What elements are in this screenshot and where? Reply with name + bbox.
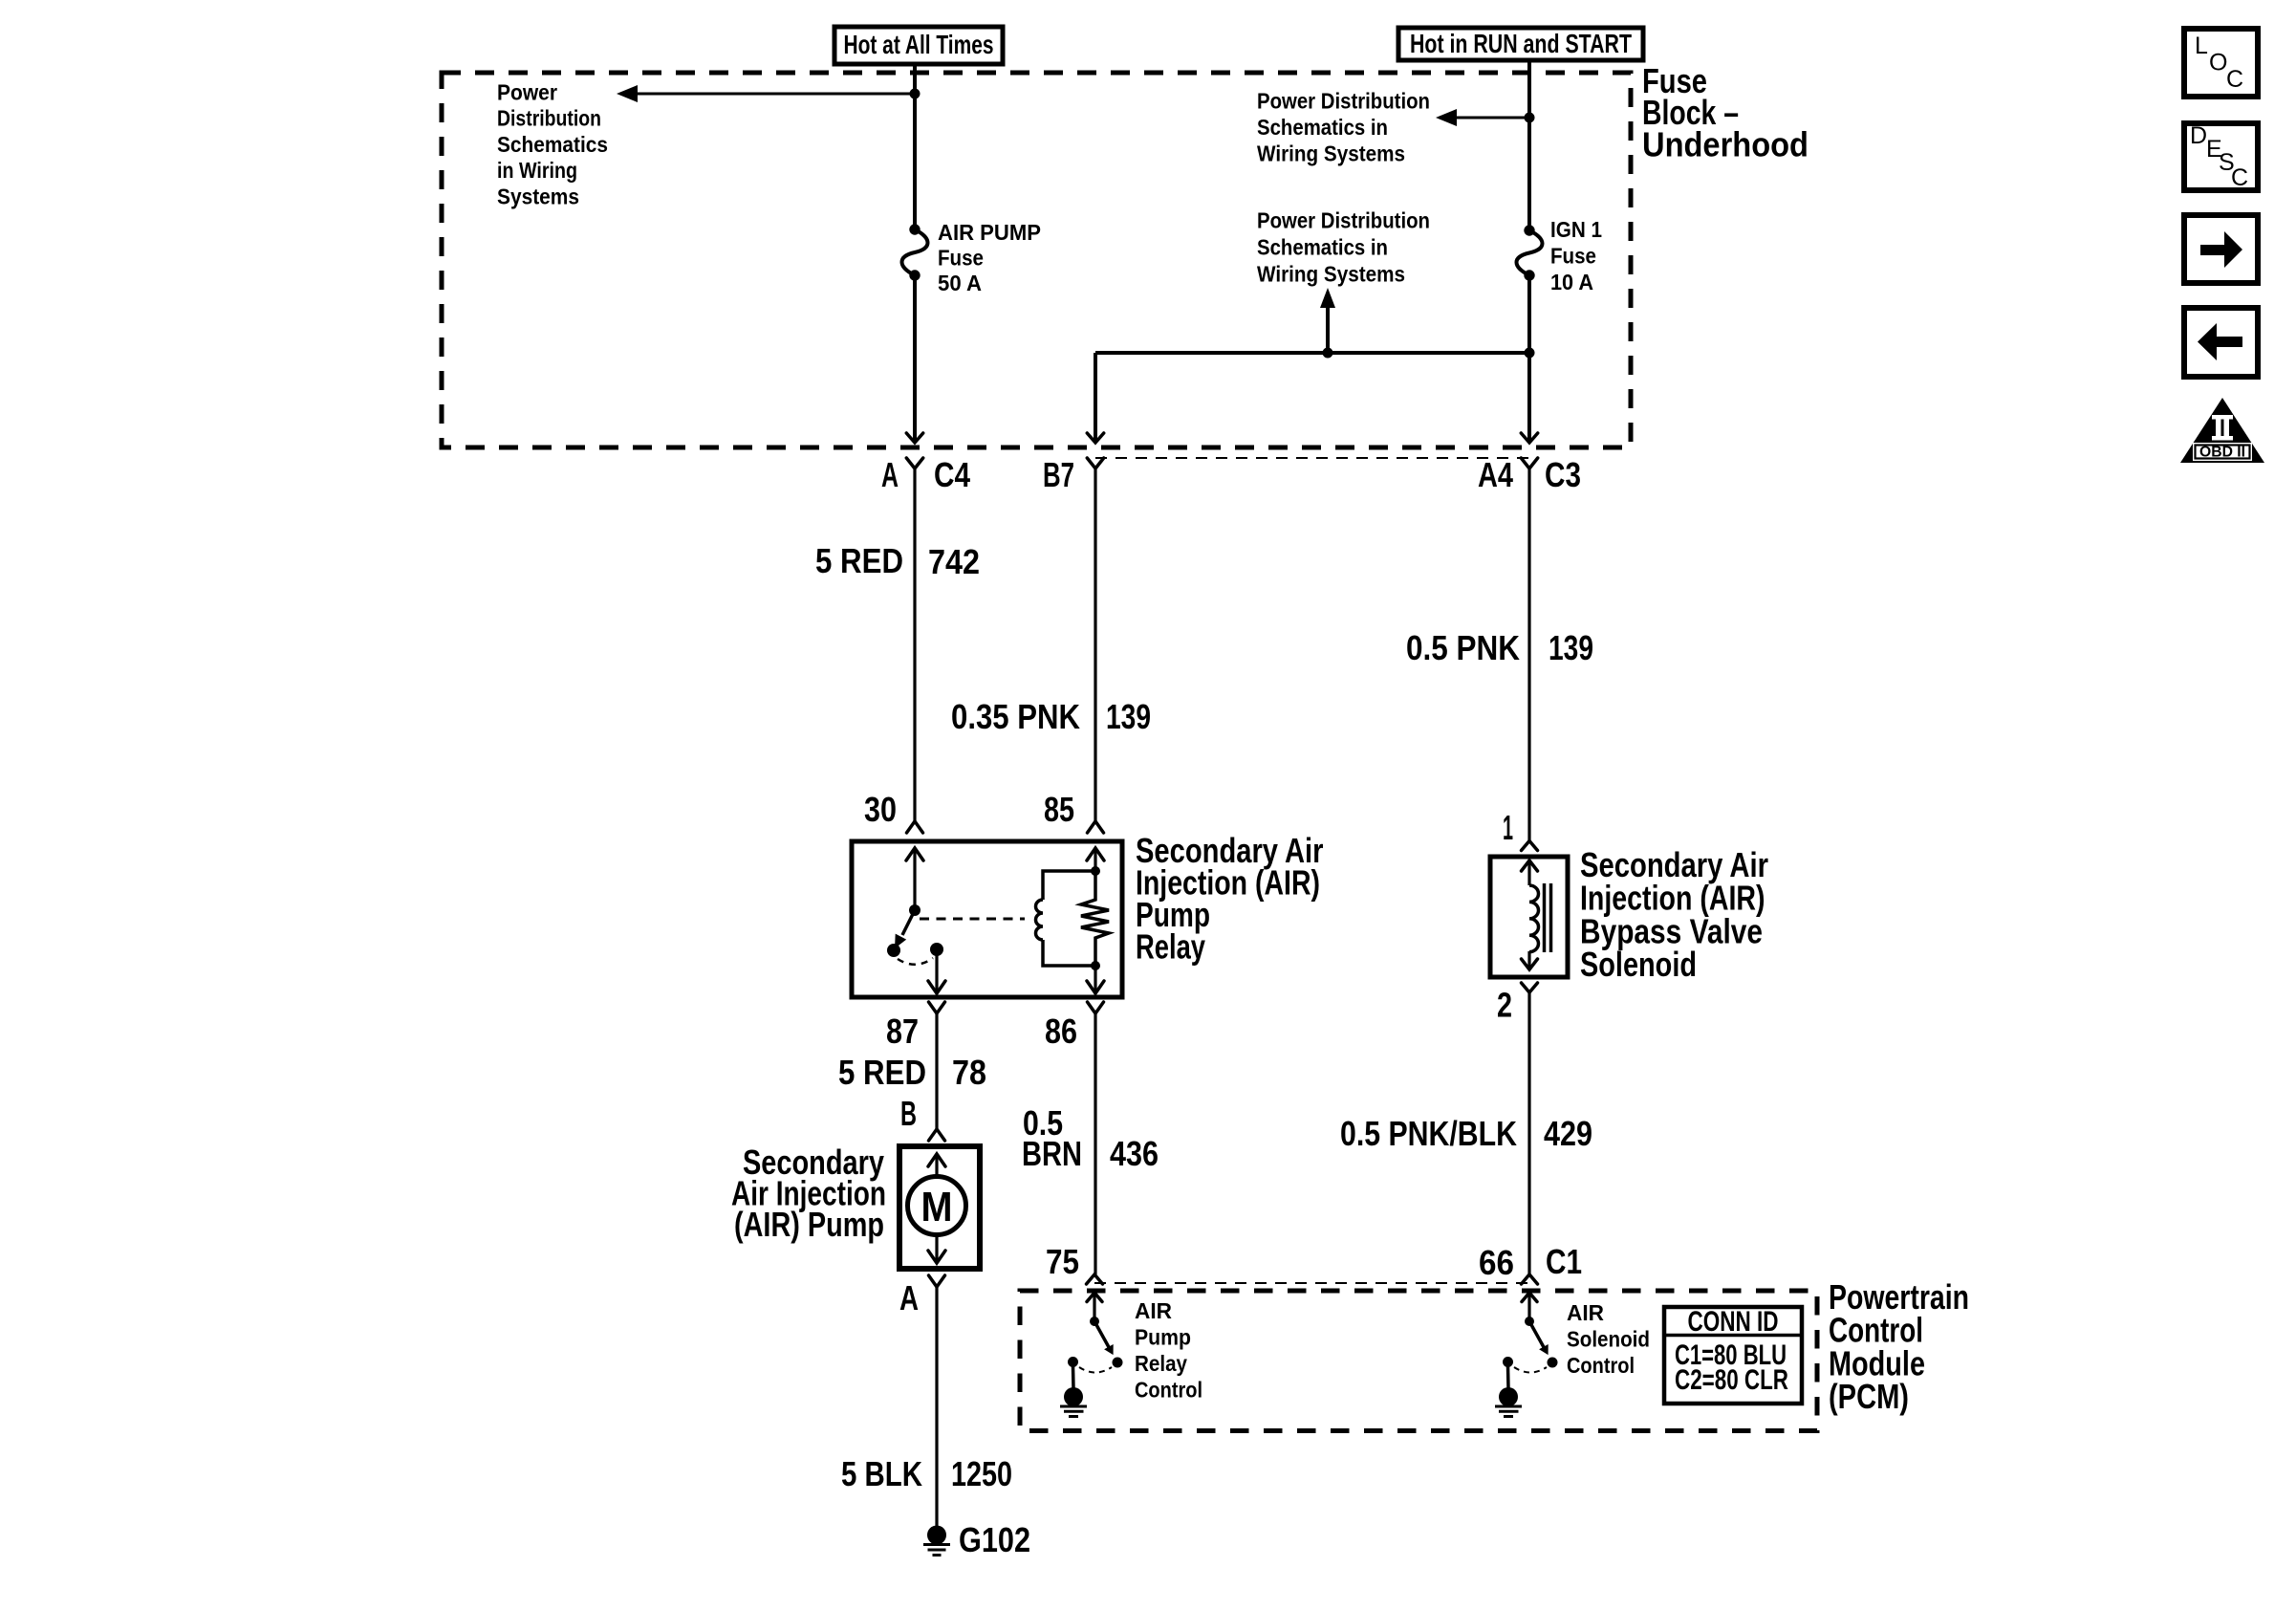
svg-text:85: 85 (1044, 790, 1074, 829)
svg-text:CONN ID: CONN ID (1688, 1306, 1779, 1338)
svg-text:30: 30 (864, 790, 897, 829)
svg-text:436: 436 (1110, 1134, 1159, 1173)
svg-text:Relay: Relay (1136, 927, 1205, 967)
svg-text:(AIR) Pump: (AIR) Pump (734, 1205, 884, 1244)
svg-text:0.5 PNK: 0.5 PNK (1406, 628, 1520, 667)
svg-text:10 A: 10 A (1550, 270, 1593, 294)
svg-text:742: 742 (928, 542, 980, 581)
svg-text:AIR PUMP: AIR PUMP (938, 220, 1041, 245)
svg-text:Schematics in: Schematics in (1257, 115, 1388, 140)
svg-text:C: C (2226, 66, 2243, 93)
svg-text:C2=80 CLR: C2=80 CLR (1675, 1364, 1788, 1396)
svg-text:Distribution: Distribution (497, 106, 601, 131)
svg-text:AIR: AIR (1567, 1300, 1604, 1325)
svg-text:139: 139 (1106, 697, 1151, 736)
svg-text:C: C (2231, 164, 2248, 191)
svg-text:87: 87 (886, 1012, 919, 1051)
svg-text:5 BLK: 5 BLK (841, 1454, 922, 1493)
svg-text:C3: C3 (1545, 455, 1581, 494)
svg-text:D: D (2190, 122, 2207, 149)
svg-text:Power Distribution: Power Distribution (1257, 89, 1430, 114)
svg-text:Control: Control (1567, 1353, 1635, 1378)
svg-text:78: 78 (952, 1053, 986, 1092)
svg-text:Power: Power (497, 80, 557, 105)
svg-text:86: 86 (1045, 1012, 1077, 1051)
svg-text:1: 1 (1503, 808, 1513, 847)
svg-text:M: M (921, 1184, 953, 1230)
svg-text:BRN: BRN (1022, 1134, 1082, 1173)
svg-text:OBD II: OBD II (2199, 445, 2245, 461)
svg-text:66: 66 (1479, 1243, 1514, 1282)
svg-text:Solenoid: Solenoid (1580, 945, 1697, 984)
svg-text:IGN 1: IGN 1 (1550, 217, 1602, 242)
svg-text:429: 429 (1544, 1114, 1592, 1153)
svg-text:Hot in RUN and START: Hot in RUN and START (1410, 29, 1632, 58)
svg-text:0.5 PNK/BLK: 0.5 PNK/BLK (1340, 1114, 1517, 1153)
svg-text:0.35 PNK: 0.35 PNK (951, 697, 1080, 736)
svg-text:Schematics: Schematics (497, 132, 608, 157)
svg-text:Fuse: Fuse (1550, 244, 1596, 269)
svg-text:A: A (881, 455, 899, 494)
svg-text:Power Distribution: Power Distribution (1257, 208, 1430, 233)
svg-text:Hot at All Times: Hot at All Times (844, 30, 994, 59)
svg-text:B: B (900, 1094, 917, 1133)
svg-text:in Wiring: in Wiring (497, 158, 577, 183)
svg-text:Wiring Systems: Wiring Systems (1257, 262, 1405, 287)
svg-text:75: 75 (1046, 1242, 1079, 1281)
svg-text:Pump: Pump (1135, 1325, 1191, 1350)
svg-text:L: L (2195, 33, 2208, 59)
svg-text:AIR: AIR (1135, 1298, 1172, 1323)
svg-text:Relay: Relay (1135, 1351, 1187, 1376)
svg-text:1250: 1250 (951, 1454, 1012, 1493)
svg-text:(PCM): (PCM) (1829, 1377, 1909, 1416)
svg-text:O: O (2209, 50, 2227, 76)
svg-text:B7: B7 (1043, 455, 1074, 494)
svg-text:Schematics in: Schematics in (1257, 235, 1388, 260)
svg-text:Fuse: Fuse (938, 246, 984, 271)
svg-text:C4: C4 (934, 455, 970, 494)
svg-text:Wiring Systems: Wiring Systems (1257, 142, 1405, 166)
svg-text:A: A (899, 1278, 919, 1317)
svg-text:139: 139 (1549, 628, 1593, 667)
svg-text:Control: Control (1135, 1378, 1202, 1403)
svg-text:G102: G102 (959, 1520, 1030, 1559)
svg-text:C1: C1 (1546, 1242, 1582, 1281)
svg-text:Systems: Systems (497, 184, 579, 208)
svg-text:A4: A4 (1478, 455, 1513, 494)
svg-text:5 RED: 5 RED (838, 1053, 926, 1092)
svg-text:Solenoid: Solenoid (1567, 1327, 1650, 1352)
svg-text:Underhood: Underhood (1642, 124, 1809, 163)
svg-text:50 A: 50 A (938, 271, 982, 295)
svg-text:2: 2 (1497, 986, 1512, 1025)
svg-text:5 RED: 5 RED (815, 541, 903, 580)
